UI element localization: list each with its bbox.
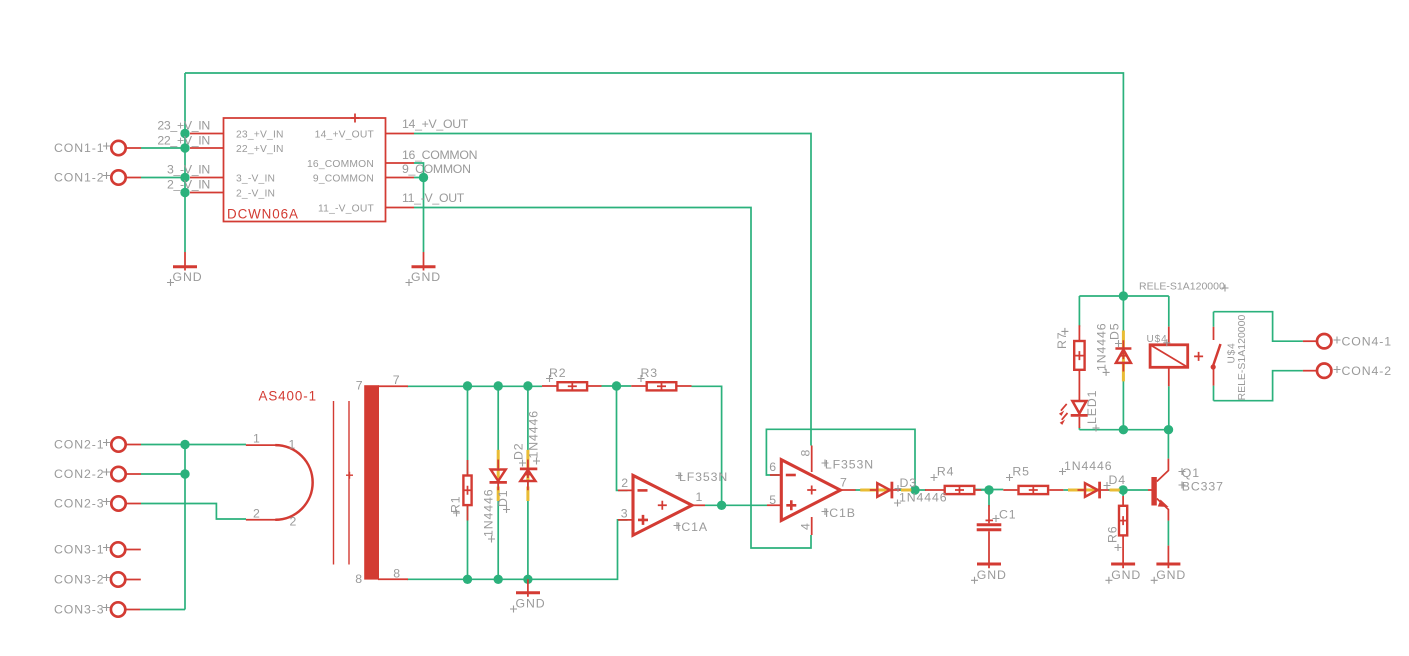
wire IC1B feedback loop	[766, 429, 915, 490]
label D4	[1104, 473, 1127, 489]
label IC1A	[674, 520, 708, 534]
svg-text:D3: D3	[900, 476, 918, 490]
relay U$4 contact	[1211, 327, 1221, 386]
wire relay coil bottom stub	[1168, 386, 1170, 430]
label R1	[449, 495, 463, 516]
diode D4	[1068, 482, 1120, 499]
relay U$4 coil	[1150, 327, 1203, 387]
junction node IC1A out	[717, 501, 726, 510]
transistor Q1	[1148, 459, 1169, 521]
pin 22_+V_IN	[190, 147, 224, 149]
wire R2R3 node to IC1A in-	[617, 386, 628, 490]
junction node relay top	[1119, 291, 1128, 300]
connector CON3-3	[111, 602, 140, 616]
IC DCWN06A box	[224, 114, 386, 222]
wire 11_-V_OUT net	[414, 208, 811, 549]
wire D5 column	[1122, 296, 1124, 430]
junction node bottom rail D2	[523, 575, 532, 584]
label R2	[546, 366, 567, 382]
label IC1B	[822, 506, 856, 520]
label CON2-3	[54, 497, 110, 511]
label CON3-1	[54, 543, 110, 557]
wire CON1-1 to bus	[141, 147, 185, 149]
wire secondary bottom rail to IC1A in+	[407, 520, 628, 579]
svg-text:D5: D5	[1108, 322, 1122, 340]
junction node relay bottom Q1	[1164, 425, 1173, 434]
wire CON3-3 stub	[140, 609, 185, 611]
label R7	[1055, 328, 1069, 349]
svg-text:CON2-3: CON2-3	[54, 497, 105, 511]
svg-text:IC1A: IC1A	[677, 520, 708, 534]
svg-text:8: 8	[355, 572, 363, 586]
capacitor C1	[977, 505, 1002, 568]
resistor R5	[1003, 486, 1063, 495]
label 1N4446 of D3	[894, 491, 947, 507]
label D2	[512, 442, 527, 466]
junction node 9_COMMON	[419, 173, 428, 182]
label CON2-1	[54, 438, 110, 452]
junction node rail D1	[494, 381, 503, 390]
junction node R6	[1118, 485, 1127, 494]
junction node 2_-V_IN	[180, 188, 189, 197]
svg-text:R5: R5	[1012, 465, 1030, 479]
svg-text:7: 7	[393, 373, 401, 387]
wire R4 to R5 node	[976, 489, 1004, 491]
svg-text:AS400-1: AS400-1	[259, 389, 317, 404]
label 1N4446 of D5	[1095, 323, 1110, 376]
svg-text:1N4446: 1N4446	[1064, 459, 1112, 473]
svg-text:3_-V_IN: 3_-V_IN	[236, 173, 275, 184]
transformer AS400-1 secondary bar	[364, 385, 408, 579]
label RELE-S1A120000 top	[1139, 281, 1229, 293]
wire CON1 input column	[184, 73, 186, 252]
connector CON4-1	[1303, 334, 1332, 348]
junction node 22_+V_IN	[180, 143, 189, 152]
svg-text:CON2-1: CON2-1	[54, 438, 105, 452]
svg-text:3: 3	[621, 507, 629, 521]
svg-text:23_+V_IN: 23_+V_IN	[236, 129, 284, 140]
wire R6 top stub	[1122, 490, 1124, 496]
pin 11_-V_OUT	[386, 207, 415, 209]
resistor R4	[925, 486, 989, 495]
label D3	[895, 476, 918, 492]
svg-text:CON2-2: CON2-2	[54, 467, 105, 481]
wire relay bottom rail	[1079, 429, 1168, 431]
svg-text:9_COMMON: 9_COMMON	[402, 162, 471, 176]
svg-text:GND: GND	[977, 568, 1007, 582]
label GND right	[406, 270, 442, 286]
wire CON2-3 to transformer pin2	[141, 504, 246, 520]
svg-text:GND: GND	[411, 270, 441, 284]
label LF353N IC1B	[822, 458, 875, 472]
diode D1	[490, 450, 507, 501]
label C1	[993, 508, 1017, 523]
wire CON2 column	[184, 445, 186, 610]
label 1N4446 of D2	[527, 410, 541, 464]
wire R3 to output node	[692, 386, 722, 505]
label GND below C1	[971, 568, 1007, 584]
label D5	[1108, 322, 1123, 347]
svg-text:R6: R6	[1105, 525, 1119, 543]
svg-text:1: 1	[696, 490, 704, 504]
wire D2 column	[527, 386, 529, 579]
svg-text:11_-V_OUT: 11_-V_OUT	[318, 203, 374, 214]
pin 2_-V_IN	[190, 192, 224, 194]
diode D3	[860, 482, 911, 499]
label CON4-1	[1334, 335, 1393, 349]
connector CON1-1	[111, 141, 141, 155]
resistor R2	[542, 382, 602, 391]
svg-text:11_-V_OUT: 11_-V_OUT	[402, 191, 465, 205]
wire relay coil top stub	[1168, 296, 1170, 327]
wire D1 column	[497, 386, 499, 579]
svg-text:U$4: U$4	[1147, 334, 1168, 345]
label CON1-1	[54, 141, 110, 155]
svg-text:22_+V_IN: 22_+V_IN	[236, 144, 284, 155]
svg-text:BC337: BC337	[1182, 480, 1224, 494]
svg-text:CON4-2: CON4-2	[1342, 364, 1393, 378]
junction node relay bottom D5	[1119, 425, 1128, 434]
connector CON3-1	[111, 542, 141, 556]
svg-text:1N4446: 1N4446	[1095, 323, 1109, 371]
svg-text:R7: R7	[1055, 331, 1069, 349]
svg-text:GND: GND	[1111, 568, 1141, 582]
ground below D2	[516, 579, 540, 597]
junction node bottom rail D1	[494, 575, 503, 584]
junction node CON2-1	[180, 440, 189, 449]
svg-text:9_COMMON: 9_COMMON	[313, 173, 374, 184]
svg-text:C1: C1	[999, 508, 1017, 522]
svg-text:D2: D2	[512, 442, 526, 460]
svg-text:D4: D4	[1109, 473, 1127, 487]
svg-text:R4: R4	[937, 465, 955, 479]
wire LED1 bottom stub	[1078, 427, 1080, 430]
svg-text:IC1B: IC1B	[825, 506, 856, 520]
label GND below R6	[1105, 568, 1141, 584]
label CON3-3	[54, 603, 110, 617]
svg-text:8: 8	[799, 449, 813, 457]
wire D4 to Q1 base	[1108, 489, 1148, 491]
wire IC1B out through D3	[855, 489, 926, 491]
svg-text:Q1: Q1	[1182, 466, 1200, 480]
LED LED1	[1059, 385, 1088, 428]
svg-text:7: 7	[840, 476, 848, 490]
wire relay contact top	[1213, 312, 1215, 327]
wire contact to CON4-2	[1214, 371, 1303, 401]
connector CON4-2	[1303, 364, 1332, 378]
svg-text:6: 6	[769, 460, 777, 474]
label GND below Q1	[1151, 568, 1187, 584]
wire R7 branch top	[1078, 296, 1080, 327]
wire contact to CON4-1	[1214, 312, 1303, 342]
svg-text:16_COMMON: 16_COMMON	[402, 148, 477, 162]
wire IC1A out to IC1B in+	[705, 504, 767, 506]
junction node CON2-2	[180, 469, 189, 478]
svg-text:14_+V_OUT: 14_+V_OUT	[402, 117, 469, 131]
label CON2-2	[54, 467, 110, 481]
wire R5 to D4	[1063, 489, 1068, 491]
svg-text:LED1: LED1	[1085, 390, 1099, 424]
label U$4 coil	[1147, 334, 1171, 346]
junction node rail D2	[523, 381, 532, 390]
svg-text:GND: GND	[516, 596, 546, 610]
label R5	[1006, 465, 1030, 482]
ground below C1	[977, 563, 1001, 566]
label BC337	[1179, 480, 1224, 494]
wire +V top bus	[185, 73, 1123, 296]
svg-text:16_COMMON: 16_COMMON	[307, 159, 374, 170]
connector CON1-2	[111, 170, 141, 184]
wire relay top rail	[1079, 295, 1168, 297]
svg-text:RELE-S1A120000: RELE-S1A120000	[1236, 315, 1248, 401]
wire 9_COMMON to gnd	[414, 178, 424, 253]
label R6	[1105, 525, 1121, 551]
op-amp IC1B	[767, 446, 856, 536]
svg-text:LF353N: LF353N	[679, 470, 728, 484]
svg-text:1N4446: 1N4446	[899, 491, 947, 505]
svg-text:CON1-2: CON1-2	[54, 171, 105, 185]
label R4	[931, 465, 955, 482]
ground below R6	[1111, 549, 1135, 568]
svg-text:R2: R2	[549, 366, 567, 380]
svg-text:2: 2	[290, 515, 298, 529]
svg-text:1N4446: 1N4446	[482, 489, 496, 537]
wire secondary top rail	[407, 385, 542, 387]
svg-text:R3: R3	[641, 366, 659, 380]
svg-text:1N4446: 1N4446	[527, 410, 541, 458]
resistor R6	[1119, 496, 1128, 550]
svg-text:8: 8	[393, 566, 401, 580]
wire Q1 collector	[1167, 430, 1169, 459]
svg-text:DCWN06A: DCWN06A	[227, 207, 299, 222]
ground below Q1	[1156, 546, 1180, 569]
wire relay contact bottom	[1213, 386, 1215, 401]
diode D2	[520, 450, 537, 501]
wire R2 to R3	[602, 385, 632, 387]
label LF353N IC1A	[676, 470, 729, 484]
svg-text:4: 4	[799, 522, 813, 530]
svg-text:14_+V_OUT: 14_+V_OUT	[315, 129, 375, 140]
svg-text:2: 2	[253, 506, 261, 520]
junction node D3 out	[910, 485, 919, 494]
connector CON3-2	[111, 572, 141, 586]
pin 3_-V_IN	[190, 177, 224, 179]
label 1N4446 of D4	[1059, 459, 1112, 475]
svg-text:CON3-3: CON3-3	[54, 603, 105, 617]
svg-text:CON1-1: CON1-1	[54, 141, 105, 155]
svg-text:3_-V_IN: 3_-V_IN	[167, 163, 210, 177]
svg-text:22_+V_IN: 22_+V_IN	[157, 134, 210, 148]
junction node 23_+V_IN	[180, 129, 189, 138]
pin 23_+V_IN	[190, 133, 224, 135]
svg-text:CON3-1: CON3-1	[54, 543, 105, 557]
transformer AS400-1 primary arc	[246, 445, 313, 520]
svg-text:GND: GND	[1156, 568, 1186, 582]
wire 16_COMMON jog	[414, 163, 424, 178]
diode D5	[1115, 331, 1131, 382]
junction node R2R3	[612, 381, 621, 390]
junction node C1	[984, 485, 993, 494]
wire CON1-2 to bus	[141, 177, 185, 179]
label CON3-2	[54, 573, 110, 587]
pin 9_COMMON	[386, 177, 415, 179]
resistor R3	[631, 382, 691, 391]
wire C1 top	[988, 490, 990, 506]
label R3	[638, 366, 659, 382]
op-amp IC1A	[618, 475, 705, 535]
svg-text:2_-V_IN: 2_-V_IN	[167, 178, 210, 192]
label D1	[496, 489, 510, 513]
svg-text:23_+V_IN: 23_+V_IN	[157, 119, 210, 133]
wire Q1 emitter segment	[1167, 521, 1169, 546]
svg-text:GND: GND	[173, 270, 203, 284]
svg-text:2: 2	[621, 476, 629, 490]
svg-text:CON3-2: CON3-2	[54, 573, 105, 587]
svg-text:2_-V_IN: 2_-V_IN	[236, 188, 275, 199]
svg-text:R1: R1	[449, 495, 463, 513]
label LED1	[1085, 390, 1100, 432]
label CON1-2	[54, 171, 110, 185]
svg-text:1: 1	[289, 438, 297, 452]
ground right of DCWN06A	[412, 252, 436, 271]
resistor R1	[463, 460, 472, 521]
connector CON2-3	[111, 496, 141, 510]
transformer core lines	[334, 401, 354, 565]
label 1N4446 of D1	[482, 489, 496, 543]
pin 16_COMMON	[386, 162, 415, 164]
svg-text:D1: D1	[496, 489, 510, 507]
svg-text:1: 1	[253, 432, 261, 446]
svg-text:CON4-1: CON4-1	[1342, 335, 1393, 349]
connector CON2-2	[111, 467, 141, 481]
wire CON2-1 to transformer pin1	[141, 444, 246, 446]
label GND below D2	[510, 596, 546, 612]
ground left of DCWN06A	[173, 252, 197, 271]
junction node rail R1	[463, 381, 472, 390]
svg-text:RELE-S1A120000: RELE-S1A120000	[1139, 281, 1225, 293]
svg-text:7: 7	[356, 378, 364, 392]
label Q1	[1179, 466, 1201, 480]
wire CON2-2 stub	[141, 473, 185, 475]
pin 14_+V_OUT	[386, 133, 415, 135]
connector CON2-1	[111, 437, 141, 451]
wire R1 column	[467, 386, 469, 579]
svg-text:5: 5	[769, 493, 777, 507]
svg-text:LF353N: LF353N	[825, 458, 874, 472]
label CON4-2	[1334, 364, 1393, 378]
junction node bottom rail R1	[463, 575, 472, 584]
resistor R7	[1074, 325, 1084, 385]
junction node 3_-V_IN	[180, 173, 189, 182]
label GND left	[167, 270, 203, 286]
wire 14_+V_OUT net	[414, 134, 811, 446]
